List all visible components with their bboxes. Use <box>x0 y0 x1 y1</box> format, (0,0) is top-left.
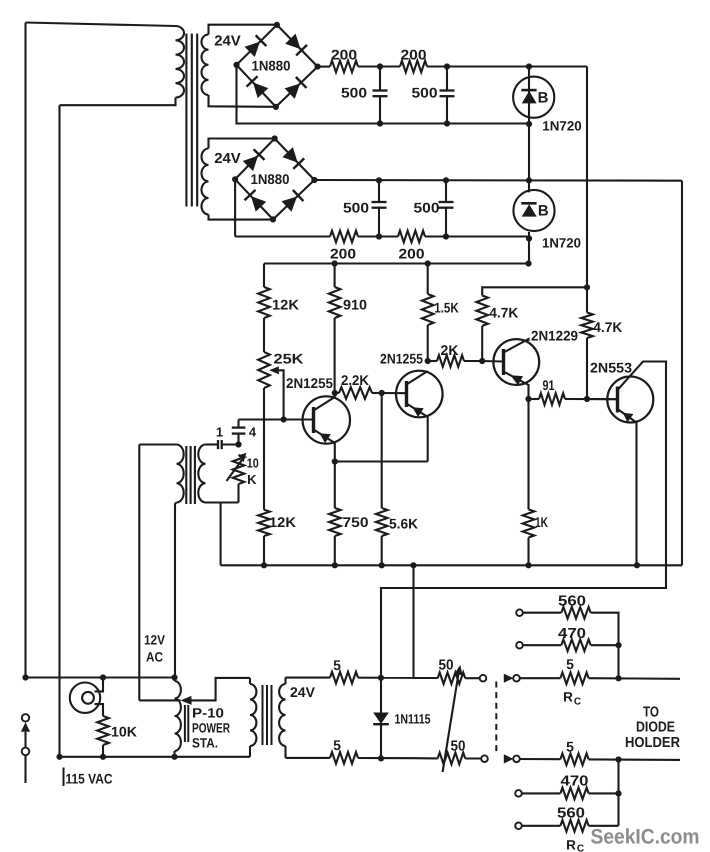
svg-text:1N1115: 1N1115 <box>395 712 431 727</box>
svg-text:470: 470 <box>558 626 586 642</box>
svg-text:AC: AC <box>146 650 163 665</box>
svg-text:10K: 10K <box>111 724 137 740</box>
svg-text:1.5K: 1.5K <box>434 300 459 316</box>
svg-text:C: C <box>577 844 584 852</box>
svg-text:1N880: 1N880 <box>252 58 291 74</box>
svg-text:DIODE: DIODE <box>636 720 675 736</box>
svg-text:5: 5 <box>333 657 341 673</box>
svg-text:4: 4 <box>249 425 257 440</box>
svg-text:10: 10 <box>247 456 259 471</box>
svg-text:5: 5 <box>566 656 574 672</box>
svg-text:R: R <box>563 690 573 705</box>
svg-text:2N1229: 2N1229 <box>531 328 578 344</box>
svg-text:2N1255: 2N1255 <box>380 351 423 367</box>
svg-text:200: 200 <box>330 246 356 262</box>
svg-text:1N880: 1N880 <box>251 171 290 187</box>
svg-text:560: 560 <box>557 806 585 822</box>
svg-text:1N720: 1N720 <box>542 236 581 251</box>
svg-text:50: 50 <box>439 658 454 674</box>
svg-text:POWER: POWER <box>192 721 230 736</box>
svg-text:2N1255: 2N1255 <box>286 375 333 391</box>
svg-text:HOLDER: HOLDER <box>625 735 680 751</box>
svg-text:1N720: 1N720 <box>542 119 582 134</box>
svg-text:4.7K: 4.7K <box>489 305 518 321</box>
svg-text:P-10: P-10 <box>192 706 224 721</box>
svg-text:910: 910 <box>343 297 367 313</box>
svg-text:200: 200 <box>401 47 427 63</box>
svg-text:5.6K: 5.6K <box>389 516 418 532</box>
svg-text:12K: 12K <box>269 514 296 530</box>
svg-text:750: 750 <box>343 514 369 530</box>
svg-text:115 VAC: 115 VAC <box>66 771 113 787</box>
svg-text:TO: TO <box>643 705 659 721</box>
svg-text:5: 5 <box>566 739 574 755</box>
svg-text:12K: 12K <box>272 297 299 313</box>
svg-text:STA.: STA. <box>192 736 218 751</box>
svg-text:24V: 24V <box>214 151 241 167</box>
svg-text:500: 500 <box>412 85 438 101</box>
svg-text:4.7K: 4.7K <box>593 319 622 335</box>
svg-text:K: K <box>247 472 257 487</box>
svg-text:91: 91 <box>543 377 555 393</box>
svg-text:200: 200 <box>331 47 357 63</box>
svg-text:2.2K: 2.2K <box>341 372 369 388</box>
svg-text:1: 1 <box>216 425 223 440</box>
svg-text:B: B <box>538 90 549 107</box>
svg-text:500: 500 <box>414 200 440 216</box>
svg-text:2K: 2K <box>441 342 459 358</box>
svg-text:25K: 25K <box>274 351 304 367</box>
svg-text:50: 50 <box>451 739 466 755</box>
svg-text:5: 5 <box>333 737 341 753</box>
svg-text:2N553: 2N553 <box>590 360 632 376</box>
svg-text:1K: 1K <box>535 514 548 530</box>
svg-text:24V: 24V <box>214 34 241 50</box>
svg-text:500: 500 <box>343 200 369 216</box>
svg-text:560: 560 <box>558 594 586 610</box>
svg-text:500: 500 <box>341 85 367 101</box>
svg-text:200: 200 <box>399 246 425 262</box>
svg-text:SeekIC.com: SeekIC.com <box>591 826 700 849</box>
svg-text:12V: 12V <box>144 633 165 648</box>
svg-text:B: B <box>538 203 549 220</box>
svg-text:R: R <box>566 838 576 852</box>
svg-text:24V: 24V <box>290 684 316 700</box>
svg-text:C: C <box>574 697 581 708</box>
svg-text:470: 470 <box>561 774 589 790</box>
